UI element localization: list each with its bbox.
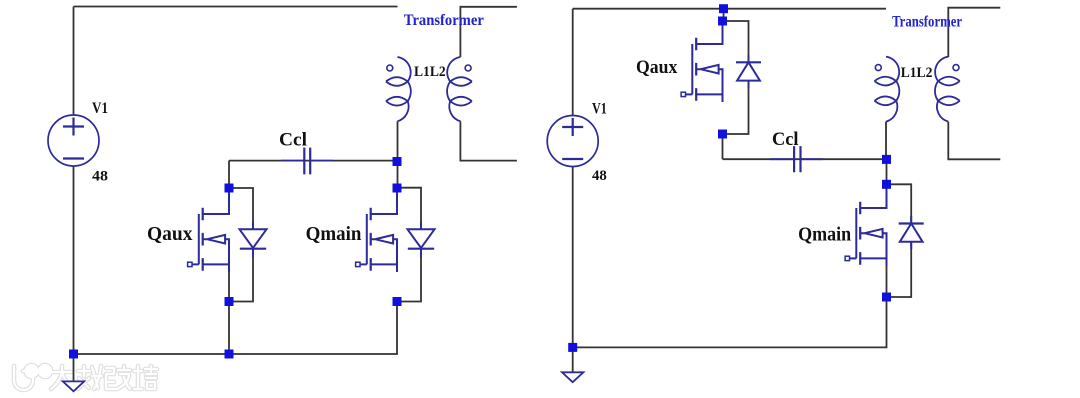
svg-text:Qaux: Qaux — [147, 224, 193, 245]
svg-text:Ccl: Ccl — [279, 130, 307, 151]
svg-text:Qaux: Qaux — [636, 57, 678, 78]
svg-text:Transformer: Transformer — [892, 14, 962, 31]
svg-text:V1: V1 — [592, 100, 607, 117]
svg-text:Qmain: Qmain — [306, 224, 362, 245]
svg-text:V1: V1 — [92, 100, 108, 117]
svg-text:Qmain: Qmain — [798, 224, 851, 245]
svg-text:48: 48 — [592, 168, 607, 184]
svg-text:L1L2: L1L2 — [414, 64, 446, 80]
svg-text:Ccl: Ccl — [772, 129, 799, 150]
svg-text:48: 48 — [92, 169, 108, 185]
svg-text:L1L2: L1L2 — [901, 65, 933, 81]
svg-text:Transformer: Transformer — [404, 12, 484, 29]
